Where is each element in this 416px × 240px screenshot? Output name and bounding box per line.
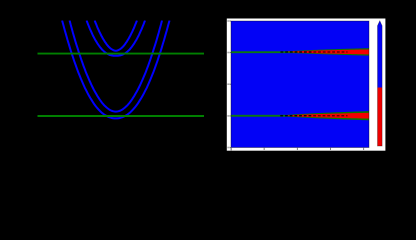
upper green dispersion line halo (right panel): [231, 51, 308, 53]
band E2 lower branch: [62, 21, 169, 119]
lower wedge red core: [286, 113, 369, 119]
band E2 upper branch: [70, 21, 162, 112]
heatmap frame (faint): [231, 21, 369, 148]
upper green dispersion line (right panel): [231, 51, 308, 53]
left axis ticks: [230, 21, 231, 149]
heatmap blue background: [231, 21, 369, 148]
upper wedge green border: [284, 48, 370, 56]
lower green dispersion line (right panel): [231, 115, 308, 117]
lower black dashed line (left segment): [280, 115, 313, 117]
upper black dashed line (left segment): [281, 51, 314, 53]
upper black dashed line (right segment, muted over red): [313, 51, 347, 53]
left axis tick label smudges: [227, 20, 229, 148]
colorbar blue segment with arrow tip: [378, 21, 383, 88]
upper wedge red core: [287, 49, 370, 54]
left band-structure panel: [38, 21, 205, 119]
band E1 lower branch: [87, 21, 145, 56]
colorbar outline (faint): [378, 21, 383, 146]
lower wedge green border: [283, 111, 369, 120]
right spectral-density panel: white figure background: [227, 19, 386, 151]
upper green energy line (left panel): [38, 53, 205, 55]
colorbar red segment: [378, 88, 383, 147]
bottom axis tick marks: [231, 148, 365, 151]
lower green energy line (left panel): [38, 115, 205, 117]
band E1 upper branch: [95, 21, 137, 51]
lower green dispersion line halo (right panel): [231, 115, 308, 117]
lower black dashed line (right segment, muted over red): [313, 115, 347, 117]
